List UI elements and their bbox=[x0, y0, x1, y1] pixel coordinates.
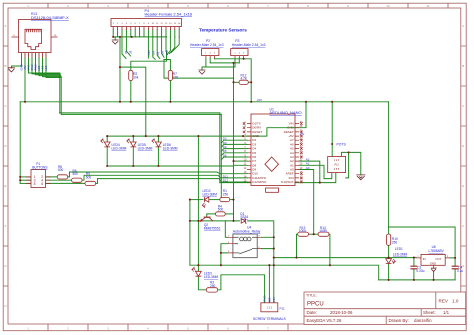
net labels A2 A1 A0 bbox=[300, 133, 310, 170]
svg-text:100R: 100R bbox=[319, 229, 327, 233]
svg-text:1.0: 1.0 bbox=[452, 298, 459, 303]
wire P1 pin5 bbox=[20, 182, 31, 184]
wire branch to LED anode rail bbox=[120, 67, 146, 136]
wire P4 horizontal bus line bbox=[113, 36, 166, 38]
label R3 value bbox=[210, 281, 216, 288]
wire regulator gnd lead bbox=[433, 271, 435, 280]
wire +5V rail bbox=[20, 101, 388, 103]
svg-text:+5V: +5V bbox=[300, 133, 305, 136]
svg-text:0.1u: 0.1u bbox=[457, 269, 463, 273]
label R5 value bbox=[86, 172, 92, 179]
wire RJ1 pin3 staircase bbox=[29, 58, 60, 74]
wire R13 R14 link bbox=[309, 233, 319, 235]
wire LED3 to R3 bbox=[198, 276, 206, 290]
node bottom 12V rail bbox=[197, 264, 199, 266]
svg-text:6: 6 bbox=[41, 182, 43, 186]
regulator U6 L7805ABV bbox=[416, 254, 450, 269]
node out rail bbox=[454, 257, 456, 259]
wire R13 left drop bbox=[297, 234, 298, 257]
svg-text:E: E bbox=[5, 184, 7, 188]
svg-text:1 2 3: 1 2 3 bbox=[334, 159, 340, 162]
ground small at regulator bbox=[431, 268, 437, 271]
led LED3 bbox=[192, 267, 202, 276]
wire RJ1 pin1 to ground bbox=[11, 58, 21, 68]
label U6 L7805ABV bbox=[429, 245, 445, 253]
svg-text:D: D bbox=[4, 144, 6, 148]
svg-text:P12: P12 bbox=[334, 164, 339, 167]
wire P4 pin stubs to bus line bbox=[113, 30, 179, 37]
wire pot right to ground bbox=[341, 152, 360, 175]
node P4 gnd line taps bbox=[112, 36, 114, 38]
wire regulator IN rail bbox=[274, 257, 416, 259]
wire RJ1 pin5 staircase bbox=[36, 58, 61, 75]
label R6 value bbox=[73, 169, 79, 176]
svg-text:P11: P11 bbox=[280, 307, 286, 311]
wire RJ1 pin2 to +5V rail bbox=[24, 58, 26, 102]
svg-text:TITLE:: TITLE: bbox=[306, 294, 317, 298]
svg-text:SS34: SS34 bbox=[240, 215, 248, 219]
svg-text:LED-3MM: LED-3MM bbox=[203, 192, 218, 196]
svg-text:F: F bbox=[5, 224, 7, 228]
wire C3 top lead bbox=[413, 258, 415, 267]
label LED6 bbox=[163, 143, 178, 151]
resistor R6 500 bbox=[72, 178, 83, 182]
svg-text:GND: GND bbox=[148, 50, 151, 56]
node LED anode rail taps bbox=[106, 135, 108, 137]
wire relay pin4 to column bbox=[221, 244, 228, 253]
label C4 value bbox=[457, 266, 463, 274]
op-amp U1 ARDUINO_NANO body bbox=[243, 114, 303, 192]
resistor R7 220 bbox=[168, 70, 172, 80]
border ticks left bbox=[3, 46, 8, 286]
wire R4 base elbow bbox=[207, 214, 216, 217]
wire R12 right to +5V rail bbox=[248, 81, 251, 83]
header P3 male 1x3 bbox=[231, 49, 248, 58]
svg-text:D: D bbox=[462, 144, 464, 148]
pin names bbox=[252, 122, 267, 184]
wire R4 right elbow bbox=[225, 213, 233, 215]
svg-text:Drawn By:: Drawn By: bbox=[389, 318, 409, 323]
svg-text:D12/MISO: D12/MISO bbox=[252, 180, 267, 184]
wire 12V bottom rail bbox=[190, 264, 330, 266]
wire P4 cluster verticals right bbox=[148, 37, 179, 59]
wire LED1 bottom to gnd rail bbox=[388, 264, 390, 280]
node LED bottom rail taps bbox=[106, 165, 108, 167]
label C3 value bbox=[416, 266, 424, 274]
led LED6 bbox=[152, 138, 162, 147]
pin numbers bbox=[244, 121, 303, 182]
wire R1 drop to collector net bbox=[233, 200, 235, 221]
resistor R13 100K bbox=[298, 232, 309, 236]
svg-text:D12: D12 bbox=[223, 179, 229, 183]
wire P4 ground stub bbox=[114, 37, 116, 40]
wire D5 row bbox=[221, 153, 247, 156]
wire LED6 leads bbox=[157, 136, 159, 166]
TITLEBLOCK bbox=[304, 292, 466, 325]
wire collector flyback line bbox=[190, 220, 240, 222]
wire C4 bottom lead bbox=[454, 269, 456, 280]
wire LED2 net vertical bbox=[189, 200, 191, 266]
resistor R5 500 bbox=[85, 181, 96, 185]
svg-text:DQ: DQ bbox=[157, 52, 160, 56]
net labels under P4 bbox=[125, 50, 169, 56]
wire +5V drop to P1 buttons bbox=[19, 102, 21, 184]
wire sensors gnd row bbox=[206, 66, 235, 68]
wire P1 pin3 bbox=[20, 179, 31, 181]
node LED2 net bbox=[189, 199, 191, 201]
bottom label box bbox=[266, 188, 279, 192]
svg-text:DS1128-04-S8B8P-X: DS1128-04-S8B8P-X bbox=[31, 15, 69, 20]
svg-text:GND: GND bbox=[166, 50, 169, 56]
wire D1 right to relay column bbox=[248, 221, 274, 237]
svg-text:500: 500 bbox=[218, 208, 224, 212]
wire D6 row bbox=[221, 157, 247, 160]
svg-text:250: 250 bbox=[223, 192, 229, 196]
wire D2 row bbox=[221, 140, 247, 143]
border ticks top bbox=[48, 3, 448, 8]
wire D4 row bbox=[221, 149, 247, 152]
svg-text:B: B bbox=[5, 64, 7, 68]
node sensor data tap bbox=[232, 62, 234, 64]
wire A1 row to pot wrap bbox=[299, 165, 332, 178]
label R7 value bbox=[173, 72, 179, 80]
node relay right bbox=[273, 236, 275, 238]
label R8 value bbox=[58, 165, 64, 172]
net labels at P11 bbox=[263, 296, 277, 302]
ground at pot bbox=[356, 175, 365, 180]
resistor R1 250 bbox=[220, 198, 230, 202]
wire P11 pin3 feed from relay column bbox=[273, 258, 275, 303]
capacitor C4 0.1u bbox=[452, 266, 459, 269]
svg-text:OUT: OUT bbox=[435, 257, 441, 261]
label R12 value bbox=[241, 73, 248, 80]
svg-text:D13/SCK: D13/SCK bbox=[281, 180, 294, 184]
wire C4 top lead bbox=[454, 258, 456, 266]
wire sensors to ground bbox=[202, 67, 206, 70]
svg-text:220: 220 bbox=[173, 76, 179, 80]
svg-text:A: A bbox=[5, 24, 7, 28]
connector P1 BUTTONS bbox=[26, 170, 51, 188]
svg-text:500: 500 bbox=[58, 168, 64, 172]
svg-text:LED-3MM: LED-3MM bbox=[112, 147, 127, 151]
ground at RJ1 bbox=[8, 68, 15, 72]
resistor R10 250 bbox=[387, 234, 391, 245]
svg-text:SCREW TERMINALS: SCREW TERMINALS bbox=[253, 317, 287, 321]
wire pot top feed bbox=[331, 102, 333, 157]
svg-text:+5V: +5V bbox=[153, 51, 156, 56]
right pin stubs bbox=[295, 124, 299, 183]
wire R10 top lead bbox=[388, 227, 390, 234]
svg-text:POTS: POTS bbox=[337, 142, 347, 146]
border ticks bottom bbox=[48, 324, 288, 331]
wire P4 cluster verticals left bbox=[122, 37, 131, 59]
wire relay right column bbox=[262, 237, 274, 257]
led LED5 bbox=[127, 138, 137, 147]
ground below sensors bbox=[199, 70, 206, 74]
svg-text:Header-Female 2.54_1x16: Header-Female 2.54_1x16 bbox=[145, 12, 193, 17]
svg-text:A: A bbox=[462, 24, 464, 28]
wire P3 pin stubs bbox=[235, 58, 244, 67]
wire 5V top line to regulator out bbox=[389, 227, 456, 258]
wire bus vertical left bbox=[60, 73, 61, 114]
wire LED2 row left bbox=[190, 199, 203, 201]
label LED1 bbox=[393, 247, 408, 256]
wire bus horizontal to arduino column bbox=[60, 113, 222, 115]
wire LED4 leads bbox=[106, 136, 108, 166]
wire P11 pin2 feed bbox=[268, 265, 270, 303]
svg-text:Header-Male 2.54_1x3: Header-Male 2.54_1x3 bbox=[232, 43, 266, 47]
svg-text:H: H bbox=[4, 304, 6, 308]
potentiometer POTS bbox=[328, 157, 346, 173]
led LED2 bbox=[202, 197, 209, 208]
svg-text:Sheet:: Sheet: bbox=[423, 310, 436, 315]
svg-text:A0: A0 bbox=[306, 166, 310, 170]
wire LED5 leads bbox=[132, 136, 134, 166]
svg-text:REV: REV bbox=[439, 298, 449, 303]
wire gnd rail bottom right bbox=[379, 279, 455, 281]
svg-text:L7805ABV: L7805ABV bbox=[429, 249, 445, 253]
wire LED anode rail to arduino GND pin bbox=[107, 135, 247, 137]
svg-text:LED-3MM: LED-3MM bbox=[163, 147, 178, 151]
no-connect X marks right bbox=[300, 122, 302, 183]
label LED2 bbox=[203, 189, 218, 197]
svg-text:Date:: Date: bbox=[307, 310, 318, 315]
wire bus vertical down at arduino left bbox=[220, 113, 222, 200]
wire pot wiper wrap bbox=[346, 152, 349, 178]
wire R3 out loop up bbox=[218, 275, 265, 303]
svg-text:100K: 100K bbox=[299, 229, 307, 233]
label LED3 bbox=[204, 272, 219, 280]
svg-text:C: C bbox=[462, 104, 464, 108]
svg-text:LED-3MM: LED-3MM bbox=[393, 253, 408, 257]
label P1 BUTTONS bbox=[32, 162, 47, 169]
led LED1 bbox=[386, 259, 396, 264]
connector P11 screw terminals bbox=[261, 303, 278, 312]
svg-text:ARDUINO_NANO: ARDUINO_NANO bbox=[269, 110, 301, 115]
svg-text:B: B bbox=[462, 64, 464, 68]
node pot feed bbox=[331, 143, 333, 145]
wire P2 pin stubs bbox=[206, 58, 215, 67]
wire LED rail drop to LED3 bbox=[197, 136, 199, 271]
wire 12V rail down right side bbox=[388, 102, 390, 227]
wire DQ line to pullup column bbox=[164, 78, 234, 82]
wire R8 row to D10 bbox=[46, 172, 248, 177]
svg-text:danzelfin: danzelfin bbox=[414, 318, 432, 323]
node IN rail bbox=[295, 257, 297, 259]
wire P1 pin1 bbox=[20, 176, 31, 178]
wire A2 row to pot wrap bbox=[299, 161, 336, 183]
svg-text:10: 10 bbox=[386, 4, 390, 8]
label Q2 bbox=[204, 223, 221, 230]
net labels under RJ1 bbox=[19, 64, 48, 71]
no-connect X marks left bbox=[243, 122, 245, 133]
resistor R2 10k bbox=[129, 70, 133, 80]
svg-text:GND: GND bbox=[430, 261, 436, 265]
border ticks right bbox=[461, 46, 466, 286]
wire C3 bottom lead bbox=[413, 269, 415, 280]
wire D7 row from DQ column bbox=[234, 160, 248, 162]
svg-text:NO: NO bbox=[267, 297, 271, 302]
wire LED bottom rail to D8 bbox=[107, 164, 247, 167]
header P4 female 1x16 bbox=[111, 19, 182, 31]
label R2 value bbox=[133, 72, 139, 80]
svg-text:5: 5 bbox=[34, 182, 36, 186]
svg-text:+5V: +5V bbox=[257, 98, 264, 102]
net labels D2-D6 bbox=[223, 137, 229, 183]
left pin stubs bbox=[247, 124, 251, 183]
svg-text:0.33u: 0.33u bbox=[416, 269, 424, 273]
resistor R12 4.7K bbox=[239, 80, 248, 84]
svg-text:1 2 3: 1 2 3 bbox=[267, 307, 273, 310]
node divider bbox=[313, 233, 315, 235]
wire R6 row to D11 bbox=[46, 175, 248, 180]
node collector net bbox=[189, 220, 191, 222]
label D1 bbox=[240, 212, 248, 219]
svg-text:GND: GND bbox=[263, 296, 267, 302]
wire cluster to R7 bbox=[164, 60, 170, 71]
wire relay pin5 drop bbox=[221, 253, 228, 265]
relay U4 Automotive_Relay bbox=[227, 234, 261, 258]
svg-text:+5V: +5V bbox=[161, 51, 164, 56]
svg-text:12V: 12V bbox=[272, 297, 276, 302]
label R13 value bbox=[299, 226, 307, 233]
wire RJ1 pin7 staircase bbox=[43, 58, 62, 77]
led LED4 bbox=[100, 138, 110, 147]
capacitor C3 0.33u bbox=[410, 266, 417, 269]
wire R12 left lead bbox=[234, 81, 240, 83]
svg-text:4.7K: 4.7K bbox=[241, 77, 248, 81]
diamond logo bbox=[265, 157, 279, 171]
resistor R14 100R bbox=[318, 232, 329, 236]
wire D3 row bbox=[221, 144, 247, 147]
svg-text:LE3: LE3 bbox=[44, 65, 48, 70]
header P2 male 1x3 bbox=[202, 49, 219, 58]
svg-text:500: 500 bbox=[86, 175, 92, 179]
svg-text:EasyEDA V5.7.26: EasyEDA V5.7.26 bbox=[307, 318, 342, 323]
node gnd rail bbox=[388, 279, 390, 281]
svg-text:Automotive_Relay: Automotive_Relay bbox=[233, 230, 261, 234]
svg-text:LED-3MM: LED-3MM bbox=[204, 275, 219, 279]
svg-text:LED1: LED1 bbox=[395, 247, 403, 251]
svg-text:500: 500 bbox=[73, 172, 79, 176]
wire R14 right drop bbox=[329, 234, 330, 265]
ground below P4 bbox=[112, 40, 119, 44]
wire sensors 5V row bbox=[215, 59, 252, 102]
node +5V rail taps bbox=[24, 101, 26, 103]
wire R10 bottom lead bbox=[388, 245, 390, 257]
svg-text:BUTTONS: BUTTONS bbox=[32, 166, 47, 170]
svg-text:1/1: 1/1 bbox=[443, 310, 450, 315]
wire cluster elbow to R2 bbox=[131, 51, 167, 70]
svg-text:4 5 6: 4 5 6 bbox=[334, 168, 340, 171]
wire LED2 to R1 bbox=[210, 199, 220, 201]
wire P4 drop to +5V rail bbox=[119, 37, 121, 102]
svg-text:250: 250 bbox=[210, 284, 216, 288]
svg-text:250: 250 bbox=[392, 241, 398, 245]
svg-text:Temperature Sensors: Temperature Sensors bbox=[199, 28, 247, 33]
wire sensors data row bbox=[210, 62, 239, 64]
svg-text:E: E bbox=[462, 184, 464, 188]
label R4 value bbox=[218, 204, 224, 211]
resistor R8 500 bbox=[57, 175, 67, 179]
resistor R4 500 bbox=[216, 212, 226, 216]
svg-text:IN: IN bbox=[423, 257, 426, 261]
wire R14 out step down bbox=[330, 265, 379, 280]
wire R2 bottom to rail bbox=[130, 81, 132, 102]
wire R5 row to D12 bbox=[46, 179, 248, 184]
svg-text:D6: D6 bbox=[223, 153, 227, 157]
label R1 value bbox=[223, 189, 229, 197]
svg-text:Header-Male 2.54_1x3: Header-Male 2.54_1x3 bbox=[190, 43, 224, 47]
diode D1 SS34 bbox=[241, 219, 246, 224]
wire R7 bottom to rail bbox=[169, 81, 171, 102]
wire coil left drop bbox=[225, 221, 227, 237]
resistor R3 250 bbox=[206, 288, 217, 292]
wire RJ1 pin4 staircase bbox=[32, 58, 60, 74]
svg-text:LED-3MM: LED-3MM bbox=[138, 147, 153, 151]
label R14 value bbox=[319, 226, 327, 233]
label LED4 bbox=[112, 143, 127, 151]
wire through-body GND link bbox=[247, 128, 299, 136]
label R10 value bbox=[392, 237, 398, 244]
svg-text:MMBT5551: MMBT5551 bbox=[204, 227, 221, 231]
wire bus branch to pot wrap bbox=[220, 182, 320, 184]
wire RJ1 pin6 staircase bbox=[39, 58, 61, 76]
svg-text:2018-10-06: 2018-10-06 bbox=[330, 310, 353, 315]
svg-text:C: C bbox=[4, 104, 6, 108]
svg-text:10k: 10k bbox=[133, 76, 139, 80]
node buttons feed taps bbox=[19, 176, 21, 178]
wire R1 right bbox=[230, 199, 234, 201]
wire cluster drop to DQ line bbox=[163, 60, 165, 79]
wire DQ column sensors to D7 and collector net bbox=[233, 63, 235, 221]
wire arduino 5V riser to pin row2 bbox=[299, 102, 306, 128]
wire A0 row to divider bbox=[299, 170, 314, 235]
wire RJ1 pin8 staircase bbox=[46, 58, 61, 78]
svg-text:PPCU: PPCU bbox=[307, 301, 324, 307]
svg-text:11: 11 bbox=[426, 4, 429, 8]
label LED5 bbox=[138, 143, 153, 151]
transistor Q2 MMBT5551 bbox=[200, 217, 213, 221]
connector RJ1 DS1128-04-S8B8P-X bbox=[12, 20, 58, 58]
svg-text:F: F bbox=[462, 224, 464, 228]
